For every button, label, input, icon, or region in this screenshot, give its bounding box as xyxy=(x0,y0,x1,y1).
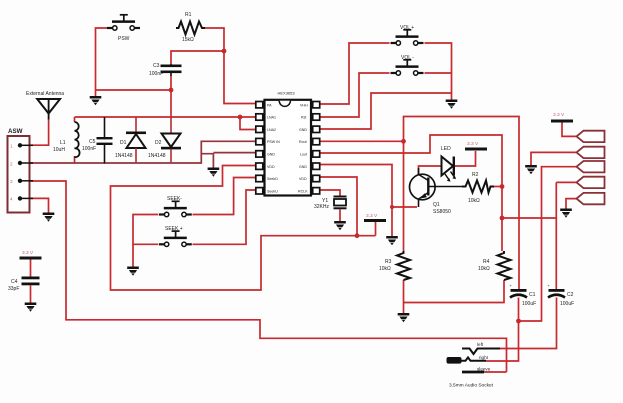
node pin13 junction xyxy=(401,139,406,144)
pin 7 xyxy=(256,175,263,181)
svg-text:GND: GND xyxy=(299,128,307,132)
svg-text:SeekD: SeekD xyxy=(267,177,278,181)
wire C4 bottom to ground xyxy=(30,286,32,303)
svg-text:R3: R3 xyxy=(385,259,392,265)
node R1-C3 junction xyxy=(222,49,227,54)
svg-text:VOL +: VOL + xyxy=(400,25,414,31)
resistor R2 10k xyxy=(462,172,494,204)
wire SEEK buttons left contacts to ground riser xyxy=(133,215,158,267)
wire L1 top stub xyxy=(74,117,76,122)
node flag GND-A xyxy=(577,147,605,158)
svg-text:R1: R1 xyxy=(185,12,192,18)
connector ASW xyxy=(8,128,34,213)
svg-text:+: + xyxy=(510,283,513,288)
svg-text:SEEK +: SEEK + xyxy=(165,226,183,232)
wire C1 bottom column to audio right contact xyxy=(486,298,519,362)
svg-text:100nF: 100nF xyxy=(149,71,163,77)
power 3.3V B1 top right xyxy=(551,112,573,123)
svg-text:C1: C1 xyxy=(529,292,536,298)
ground G5 VOL buttons xyxy=(446,100,458,109)
svg-text:PSW IN: PSW IN xyxy=(267,140,280,144)
svg-text:ASW: ASW xyxy=(8,128,23,135)
wire audio sleeve stub xyxy=(484,371,507,373)
wire 3.3V bar B1 to flag1 xyxy=(562,123,577,137)
switch VOL+ xyxy=(391,25,424,45)
node flag GND-B xyxy=(577,193,605,204)
wire IC pin16 to VOL+ left xyxy=(319,43,390,104)
pin 13 xyxy=(313,138,320,144)
wire collector to LED anode xyxy=(419,166,442,174)
wire flag4 riser and C2 top column xyxy=(555,182,557,289)
ground G1 near PSW xyxy=(90,96,102,105)
svg-text:3.3 V: 3.3 V xyxy=(553,112,565,118)
wire IC pin11 to emitter/ground column xyxy=(319,165,392,237)
node R2 column junction xyxy=(500,184,505,189)
resistor R4 10k vertical xyxy=(478,251,511,280)
wire ASW pin4 to ground xyxy=(21,198,49,212)
svg-text:100uF: 100uF xyxy=(522,301,536,307)
node ASW pin 1 xyxy=(18,143,33,147)
IC pin labels xyxy=(267,103,308,193)
pin 6 xyxy=(256,163,263,169)
svg-text:10kΩ: 10kΩ xyxy=(468,198,480,204)
wire IC pin14 to ground rail y93 xyxy=(319,93,452,129)
wire flag2 to ground xyxy=(531,152,577,165)
wire R1 right to pin1 riser xyxy=(205,28,256,104)
wire pin13 column x403 up and right to C1 top riser xyxy=(404,117,520,290)
wire emitter branch xyxy=(392,206,417,208)
svg-text:D2: D2 xyxy=(155,140,162,146)
wire R3 bottom to ground with branch xyxy=(403,280,405,313)
svg-text:C5: C5 xyxy=(89,139,96,145)
wire ASW pin3 long loop to audio sleeve riser xyxy=(21,181,507,372)
svg-text:GND: GND xyxy=(267,153,275,157)
switch SEEK- xyxy=(159,196,192,217)
wire L1 bottom stub xyxy=(74,156,76,164)
svg-text:10kΩ: 10kΩ xyxy=(379,266,391,272)
wire tank top rail y117 to IC pin2 xyxy=(75,116,257,118)
wire IC pin6 to VDD loop xyxy=(111,166,376,291)
capacitor C4 33pF xyxy=(8,277,40,293)
ground G6 below R3 xyxy=(398,313,410,322)
ground G4 SEEK buttons xyxy=(127,267,139,276)
wire R2 right lead to x502 column xyxy=(494,186,502,188)
ground G2 tank rail xyxy=(208,168,220,177)
svg-text:C2: C2 xyxy=(567,292,574,298)
pin 5 xyxy=(256,151,263,157)
switch SEEK+ xyxy=(159,226,192,247)
wire LED cathode to 3.3V bar B3 xyxy=(455,151,476,166)
svg-text:10uH: 10uH xyxy=(53,147,65,153)
wire R3/R4 bottom link y302 xyxy=(404,280,505,303)
node ASW pin 2 xyxy=(18,161,33,165)
wire IC pin15 to VOL- left xyxy=(319,73,390,117)
antenna External Antenna xyxy=(26,91,64,120)
svg-text:D1: D1 xyxy=(120,140,127,146)
wire tank bottom rail y163 from ASW pin2 xyxy=(21,154,213,168)
wire C2 bottom to audio left contact xyxy=(500,298,557,349)
pin 1 xyxy=(256,102,263,108)
svg-text:VOL -: VOL - xyxy=(401,55,414,61)
wire SEEK+ right to IC pin8 riser xyxy=(193,190,257,244)
svg-text:Rout: Rout xyxy=(299,140,307,144)
svg-text:4: 4 xyxy=(10,197,13,202)
node tank rail pin2 junction xyxy=(238,115,243,120)
wire VOL+ right / VOL- right to ground column xyxy=(425,43,452,100)
svg-text:C3: C3 xyxy=(153,63,160,69)
node flag LEFT xyxy=(577,161,605,172)
svg-text:HEX3653: HEX3653 xyxy=(278,91,296,96)
wire junction to C3 top xyxy=(171,51,224,64)
svg-text:LNA2: LNA2 xyxy=(267,128,276,132)
pin 15 xyxy=(313,114,320,120)
wire C3 bottom to tank rail xyxy=(170,76,172,118)
node flag VCC xyxy=(577,131,605,142)
wire IC pin9 to crystal xyxy=(319,190,340,196)
svg-text:1N4148: 1N4148 xyxy=(115,153,133,159)
switch VOL- xyxy=(391,55,424,75)
pin 14 xyxy=(313,126,320,132)
node y218 column junction xyxy=(500,216,505,221)
op-amp U1 HEX3653 body xyxy=(265,91,312,196)
svg-text:1: 1 xyxy=(10,144,13,149)
svg-text:R2: R2 xyxy=(472,172,479,178)
wire 3.3V bar B2 stem xyxy=(375,222,377,236)
wire PSW left to ground riser xyxy=(96,28,111,96)
svg-text:C4: C4 xyxy=(11,279,18,285)
node VDD rail pin10 junction xyxy=(355,233,360,238)
pin 8 xyxy=(256,188,263,194)
svg-text:100nF: 100nF xyxy=(82,146,96,152)
svg-text:RCLK: RCLK xyxy=(298,189,308,193)
svg-text:1N4148: 1N4148 xyxy=(148,153,166,159)
wire 3.3V bar to C4 top xyxy=(30,260,32,278)
power 3.3V B3 near LED xyxy=(465,141,487,151)
svg-text:33pF: 33pF xyxy=(8,286,19,292)
ground G9 flag2 xyxy=(525,165,537,174)
pin 11 xyxy=(313,163,320,169)
svg-text:SeekU: SeekU xyxy=(267,189,278,193)
wire IC pin5 to ground stem xyxy=(213,152,256,154)
ground G7 emitter column xyxy=(386,236,398,245)
power 3.3V B2 middle xyxy=(364,213,386,222)
svg-text:Rst: Rst xyxy=(301,116,306,120)
svg-text:10kΩ: 10kΩ xyxy=(478,266,490,272)
svg-text:VDD: VDD xyxy=(299,177,307,181)
svg-text:32KHz: 32KHz xyxy=(314,204,330,210)
node C1 bottom junction xyxy=(516,319,521,324)
svg-text:L1: L1 xyxy=(60,140,66,146)
wire flag4 stub xyxy=(556,181,577,183)
svg-text:3.3 V: 3.3 V xyxy=(467,141,479,147)
wire pin10 riser from VDD rail xyxy=(319,177,357,236)
ground G8 below crystal xyxy=(334,221,346,230)
switch PSW xyxy=(107,15,140,42)
svg-text:GND: GND xyxy=(299,165,307,169)
svg-text:VHH: VHH xyxy=(300,103,308,107)
capacitor C1 100uF polarized xyxy=(510,283,537,307)
svg-text:LED: LED xyxy=(441,146,451,152)
svg-text:100uF: 100uF xyxy=(560,301,574,307)
ground G11 below C4 xyxy=(25,303,37,312)
ground G10 flag5 xyxy=(560,209,572,218)
wire SEEK- right to IC pin7 riser xyxy=(193,178,257,215)
node C3-ground junction xyxy=(169,88,174,93)
svg-text:3.3 V: 3.3 V xyxy=(366,213,378,219)
diode D2 1N4148 pointing down xyxy=(148,117,181,164)
IC left pin squares xyxy=(256,102,263,195)
pin 10 xyxy=(313,175,320,181)
wire pin2 junction down to pin3 xyxy=(240,117,256,130)
node ASW pin 4 xyxy=(18,196,33,200)
pin 16 xyxy=(313,102,320,108)
capacitor C2 100uF polarized xyxy=(548,283,575,307)
svg-text:Q1: Q1 xyxy=(433,202,440,208)
capacitor C5 100nF xyxy=(82,117,113,164)
wire C1-bottom junction to flag3 riser xyxy=(519,167,578,321)
diode D1 1N4148 pointing up xyxy=(115,117,146,164)
pin 9 xyxy=(313,188,320,194)
svg-text:+: + xyxy=(548,283,551,288)
svg-text:left: left xyxy=(477,342,484,347)
svg-text:2: 2 xyxy=(10,161,13,166)
power 3.3V B4 above C4 xyxy=(20,250,42,260)
inductor L1 10uH xyxy=(53,122,80,157)
svg-text:3: 3 xyxy=(10,179,13,184)
node ASW pin 3 xyxy=(18,179,33,183)
svg-text:SS8050: SS8050 xyxy=(433,209,451,215)
wire ground rail y90 to C3 junction xyxy=(96,89,172,91)
resistor R1 15k xyxy=(176,12,205,43)
LED indicator xyxy=(441,146,456,182)
svg-text:15kΩ: 15kΩ xyxy=(182,37,194,43)
crystal Y1 32KHz xyxy=(314,197,347,211)
svg-text:right: right xyxy=(479,355,489,360)
svg-text:VDD: VDD xyxy=(267,165,275,169)
wire IC pin12 staircase to x502 column xyxy=(319,135,502,251)
svg-text:3.3 V: 3.3 V xyxy=(22,250,34,256)
pin 3 xyxy=(256,126,263,132)
wire flag5 to ground xyxy=(566,199,577,209)
wire IC pin13 to junction xyxy=(319,140,404,142)
node emitter junction xyxy=(390,205,394,209)
svg-text:SEEK-: SEEK- xyxy=(167,196,182,202)
wire y218 rail x502 to C2/flag4 column xyxy=(502,217,556,219)
svg-text:PA: PA xyxy=(267,103,272,107)
svg-text:External Antenna: External Antenna xyxy=(26,91,64,97)
ground G3 below ASW xyxy=(43,213,55,222)
wire IC pin4 riser to rail jog xyxy=(201,141,256,153)
resistor R3 10k vertical xyxy=(379,251,410,280)
node flag RIGHT xyxy=(577,177,605,188)
pin 2 xyxy=(256,114,263,120)
svg-text:R4: R4 xyxy=(483,259,490,265)
connector 3.5mm audio socket xyxy=(447,342,501,389)
svg-text:PSW: PSW xyxy=(118,36,130,42)
IC right pin squares xyxy=(313,102,320,195)
transistor Q1 SS8050 xyxy=(410,168,463,215)
svg-text:Lout: Lout xyxy=(300,153,307,157)
wire crystal bottom to ground xyxy=(339,210,341,222)
svg-text:LNA1: LNA1 xyxy=(267,116,276,120)
pin 12 xyxy=(313,151,320,157)
svg-text:3.5mm Audio Socket: 3.5mm Audio Socket xyxy=(449,383,494,389)
wire antenna riser to ASW pin1 xyxy=(21,119,49,145)
capacitor C3 100nF xyxy=(149,63,182,77)
pin 4 xyxy=(256,138,263,144)
wire SEEK+ left branch xyxy=(133,243,158,245)
